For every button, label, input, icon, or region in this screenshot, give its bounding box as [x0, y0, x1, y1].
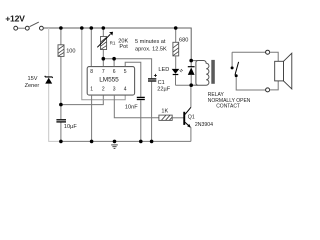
wire pin 3 to 1K	[114, 95, 159, 118]
svg-text:2: 2	[102, 87, 105, 93]
svg-text:5 minutes at: 5 minutes at	[135, 39, 166, 45]
resistor 100	[58, 45, 76, 57]
svg-text:2N3904: 2N3904	[195, 122, 213, 128]
node dot coil bottom / collector	[189, 83, 193, 87]
relay coil	[191, 60, 198, 62]
svg-text:10µF: 10µF	[64, 124, 77, 130]
svg-text:22µF: 22µF	[157, 87, 170, 93]
node dot gnd C1	[150, 140, 154, 144]
wire top rail +12V	[43, 28, 191, 61]
wire to speaker	[270, 52, 279, 61]
diode flyback across relay coil	[188, 61, 195, 86]
wire pot branch	[102, 28, 104, 59]
node dot rail 680	[174, 26, 178, 30]
node dot trigger	[59, 103, 63, 107]
zener diode D1 15V	[25, 76, 53, 89]
switch S1	[14, 22, 44, 30]
wire trigger node to pin 2	[61, 95, 103, 105]
svg-text:Zener: Zener	[25, 83, 40, 89]
op-amp U1 LM555 timer	[87, 67, 134, 96]
resistor 1K	[159, 109, 172, 121]
svg-text:aprox. 12.5K: aprox. 12.5K	[135, 46, 167, 52]
svg-text:Pot: Pot	[119, 44, 128, 50]
node dot rail pin8	[90, 26, 94, 30]
svg-text:1K: 1K	[161, 109, 168, 115]
node dot gnd 10uF	[59, 140, 63, 144]
svg-text:8: 8	[90, 69, 93, 75]
wire pin 5 to 10nF	[125, 62, 141, 97]
wire zener branch (light)	[49, 28, 61, 141]
svg-text:LM555: LM555	[99, 76, 119, 83]
svg-text:680: 680	[179, 37, 188, 43]
svg-text:LED: LED	[158, 67, 169, 73]
wire 680 branch	[175, 28, 177, 42]
wire reset pin4 to +12	[82, 28, 125, 100]
terminal circles	[266, 50, 270, 54]
node dot gnd symbol	[113, 140, 117, 144]
wire ground rail	[61, 140, 191, 142]
svg-text:C1: C1	[158, 80, 165, 86]
relay contact normally open	[231, 52, 266, 90]
svg-text:1: 1	[90, 87, 93, 93]
wire pin 1 to ground	[91, 95, 93, 141]
node dot gnd pin1	[90, 140, 94, 144]
node dot rail reset	[80, 26, 84, 30]
capacitor 10nF	[125, 97, 145, 141]
svg-text:3: 3	[113, 87, 116, 93]
svg-text:15V: 15V	[28, 76, 38, 82]
svg-text:5: 5	[124, 69, 127, 75]
svg-text:10nF: 10nF	[125, 104, 138, 110]
svg-text:6: 6	[113, 69, 116, 75]
wire 100-ohm branch	[60, 28, 62, 141]
svg-text:CONTACT: CONTACT	[216, 104, 240, 110]
speaker	[275, 53, 292, 89]
wire coil top	[191, 60, 197, 62]
svg-text:100: 100	[66, 49, 75, 55]
svg-text:RELAY: RELAY	[208, 92, 225, 98]
node dot pin7	[102, 57, 106, 61]
wire collector node	[176, 84, 198, 86]
wire pins 6-7 junction to C1	[103, 59, 151, 78]
svg-text:4: 4	[124, 87, 127, 93]
svg-text:+12V: +12V	[5, 14, 25, 24]
relay core	[211, 60, 215, 84]
resistor 680	[173, 37, 188, 56]
LED	[158, 67, 182, 74]
node dot coil top	[189, 59, 193, 63]
svg-text:Q1: Q1	[188, 115, 195, 121]
svg-text:R1: R1	[110, 40, 116, 45]
wire 1K to base	[172, 117, 183, 119]
wire pin 8 to +12	[90, 28, 92, 67]
node dot pin6	[112, 57, 116, 61]
svg-text:7: 7	[102, 69, 105, 75]
node dot rail pot	[102, 26, 106, 30]
potentiometer R1 20K	[97, 32, 128, 50]
ground symbol	[111, 145, 118, 149]
node dot gnd 10nF	[139, 140, 143, 144]
capacitor C1 22uF	[148, 74, 171, 141]
wire contact loop top	[232, 51, 266, 53]
node dot rail 100ohm	[59, 26, 63, 30]
capacitor 10uF	[56, 120, 77, 130]
transistor Q1 2N3904	[183, 85, 213, 141]
